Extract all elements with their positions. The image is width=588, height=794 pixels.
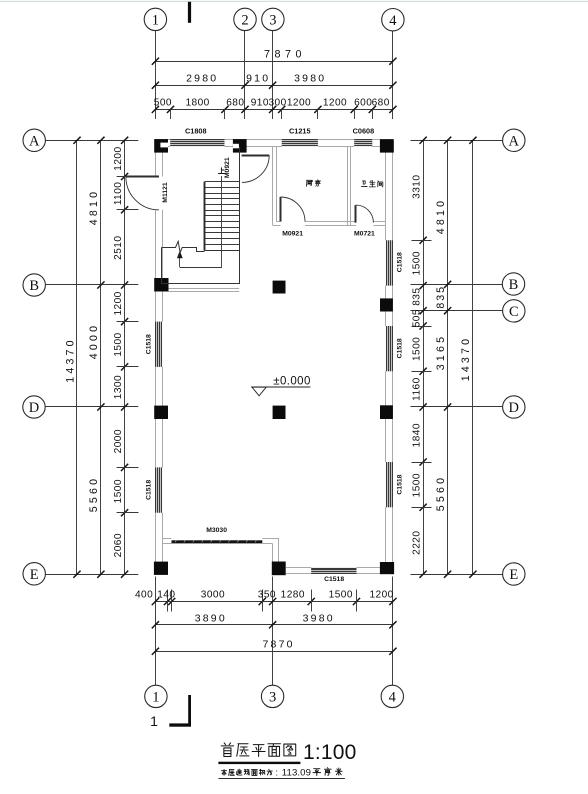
svg-text:C1518: C1518 xyxy=(396,474,403,494)
door M0721 (bathroom) leaf xyxy=(355,205,357,223)
wall: north exterior (grid A), outer face xyxy=(155,139,170,141)
wall: west exterior, outer face xyxy=(155,139,157,176)
svg-text:910: 910 xyxy=(251,98,269,109)
dimension chain 500/1800/680/910/300/1200/1200/600/680 (top) xyxy=(155,109,393,111)
grid bubble A (right) xyxy=(503,129,525,151)
stair break line with zigzag xyxy=(162,241,205,252)
level mark ±0.000 xyxy=(251,375,311,395)
grid line B (right) xyxy=(411,284,503,286)
footer underline xyxy=(218,777,345,780)
title 首层平面图 xyxy=(221,743,233,757)
svg-text:910: 910 xyxy=(246,72,270,84)
column grid3-B xyxy=(273,281,286,294)
grid bubble 1 (top) xyxy=(144,8,166,30)
grid bubble E (right) xyxy=(503,563,525,585)
stair treads xyxy=(205,182,239,245)
column grid4-E xyxy=(380,562,394,574)
wall: south exterior (grid E), inner face xyxy=(286,567,311,569)
svg-text:600: 600 xyxy=(354,98,372,109)
wall: north exterior (grid A), inner face xyxy=(162,146,170,148)
grid bubble 4 (bottom) xyxy=(381,685,403,707)
svg-text:680: 680 xyxy=(372,98,390,109)
svg-text:E: E xyxy=(509,567,518,583)
dimension line 2980/910/3980 (top) xyxy=(155,85,393,87)
grid line 4 (bottom) xyxy=(392,577,394,686)
svg-text:1: 1 xyxy=(152,13,159,29)
wall: east exterior, outer face xyxy=(392,139,394,240)
grid bubble 1 (bottom) xyxy=(145,685,167,707)
stair walking-line arrow xyxy=(177,251,183,259)
svg-text:4810: 4810 xyxy=(435,198,447,234)
stair stringer (thick) xyxy=(204,182,206,251)
svg-text:2980: 2980 xyxy=(186,72,218,84)
grid bubble 3 (top) xyxy=(262,8,284,30)
extension stubs (top chain) xyxy=(170,109,172,119)
svg-text:3000: 3000 xyxy=(201,590,225,601)
extension stubs (bottom chain) xyxy=(167,590,169,612)
section mark 1 (top) xyxy=(188,2,191,23)
grid line A (right) xyxy=(411,140,503,142)
svg-text:350: 350 xyxy=(258,590,276,601)
svg-text:1500: 1500 xyxy=(113,332,124,356)
column grid1-A notch xyxy=(160,143,168,148)
svg-text:400: 400 xyxy=(135,590,153,601)
grid line 1 (bottom) xyxy=(155,577,157,686)
svg-text:4810: 4810 xyxy=(88,189,100,225)
window C1518 (west wall, lower) xyxy=(155,467,162,512)
svg-text:1160: 1160 xyxy=(411,377,422,401)
svg-text:C1518: C1518 xyxy=(145,480,152,500)
column grid2-A notch xyxy=(233,144,239,149)
grid line 4 (top) xyxy=(392,31,394,119)
svg-text:E: E xyxy=(30,567,39,583)
window C1518 (east wall, middle) xyxy=(386,326,393,371)
page top edge line xyxy=(0,0,588,3)
grid bubble A (left) xyxy=(23,129,45,151)
svg-text:500: 500 xyxy=(154,98,172,109)
svg-text:1: 1 xyxy=(150,713,158,729)
grid bubble 3 (bottom) xyxy=(261,685,283,707)
wall: recess return (above grid3-E column) xyxy=(272,544,274,562)
grid bubble E (left) xyxy=(23,563,45,585)
grid bubble 2 (top) xyxy=(234,8,256,30)
svg-text:1500: 1500 xyxy=(411,251,422,275)
stair lower flight bottom edge xyxy=(204,250,239,252)
svg-text:D: D xyxy=(509,400,519,416)
wall: stair hall south (grid B) xyxy=(169,288,240,290)
svg-text:1200: 1200 xyxy=(287,98,311,109)
extension stubs (left chain) xyxy=(117,176,139,178)
dimension line 4810/835/3165/5560 (right) xyxy=(447,140,449,574)
door M3030 (south sliding door band) xyxy=(172,540,263,543)
svg-text:1100: 1100 xyxy=(113,182,124,206)
grid line D (left) xyxy=(46,406,139,408)
grid line C (right) xyxy=(411,310,503,312)
grid bubble C (right) xyxy=(503,300,525,322)
stair up label 上 (rotated) xyxy=(219,168,225,174)
svg-text:1200: 1200 xyxy=(113,146,124,170)
grid bubble 4 (top) xyxy=(382,9,404,31)
grid line A (left) xyxy=(46,140,139,142)
column grid3-E xyxy=(272,562,286,576)
svg-text:C1808: C1808 xyxy=(185,127,207,136)
svg-text:M0921: M0921 xyxy=(224,157,231,178)
dimension line 14370 (right) xyxy=(472,140,474,574)
stair walking line xyxy=(180,267,222,269)
svg-text:C1518: C1518 xyxy=(145,334,152,354)
svg-text:M0921: M0921 xyxy=(282,231,303,238)
grid line 1 (top) xyxy=(155,31,157,119)
wall: kitchen/bathroom divider xyxy=(347,146,349,225)
svg-text:4: 4 xyxy=(389,13,397,29)
svg-text:C1518: C1518 xyxy=(324,576,344,583)
grid line B (left) xyxy=(46,284,139,286)
room label 卫生间 (bathroom) xyxy=(361,181,367,186)
svg-text:B: B xyxy=(509,277,519,293)
svg-text:2510: 2510 xyxy=(113,236,124,260)
svg-text:5560: 5560 xyxy=(88,476,100,512)
window C1518 (east wall, lower) xyxy=(386,462,393,507)
door M1121 swing arc xyxy=(126,177,159,210)
grid bubble D (left) xyxy=(23,396,45,418)
grid line E (left) xyxy=(46,574,139,576)
dimension line 4810/4000/5560 (left) xyxy=(100,140,102,574)
column grid4-D xyxy=(380,405,393,419)
dimension chain 400/140/3000/350/1280/1500/1200 (bottom) xyxy=(155,601,393,603)
svg-text:1: 1 xyxy=(152,690,159,706)
svg-text:505: 505 xyxy=(411,309,422,327)
dimension line 7870 (top) xyxy=(155,61,393,63)
window C0608 (north wall) xyxy=(354,139,372,146)
column grid3-D xyxy=(273,406,286,419)
svg-text:2060: 2060 xyxy=(113,533,124,557)
svg-text:3980: 3980 xyxy=(303,612,335,624)
extension stubs (right chain) xyxy=(412,240,432,242)
svg-text:B: B xyxy=(29,278,39,294)
dimension chain 3310/1500/835/505/1500/1160/1840/1500/2220 (right) xyxy=(423,140,425,574)
svg-text:±0.000: ±0.000 xyxy=(273,375,311,387)
column grid1-D xyxy=(154,406,168,419)
svg-text:M0721: M0721 xyxy=(354,231,375,238)
svg-text:1280: 1280 xyxy=(281,590,305,601)
svg-text:D: D xyxy=(29,400,39,416)
svg-text:1500: 1500 xyxy=(411,473,422,497)
svg-text:C1518: C1518 xyxy=(396,252,403,272)
door M0921 (kitchen) leaf xyxy=(280,197,282,222)
svg-text:4: 4 xyxy=(389,690,397,706)
svg-text:3: 3 xyxy=(269,690,276,706)
column grid1-B xyxy=(154,278,168,292)
svg-text:1500: 1500 xyxy=(411,337,422,361)
svg-text:1840: 1840 xyxy=(411,423,422,447)
grid bubble B (left) xyxy=(23,274,45,296)
svg-text:4000: 4000 xyxy=(88,323,100,359)
wall: south recess wall with M3030 xyxy=(162,538,171,540)
grid line 3 (bottom) xyxy=(272,577,274,686)
grid line D (right) xyxy=(411,406,503,408)
svg-text:1500: 1500 xyxy=(329,590,353,601)
column grid2-A xyxy=(233,139,247,153)
window C1215 (north wall) xyxy=(282,139,318,146)
wall: kitchen west partition (grid 3) xyxy=(272,147,274,225)
svg-text:2220: 2220 xyxy=(411,531,422,555)
dimension chain 1200/1100/2510/1200/1500/1300/2000/1500/2060 (left) xyxy=(124,140,126,574)
svg-text:140: 140 xyxy=(157,590,175,601)
svg-text:14370: 14370 xyxy=(64,337,76,382)
grid bubble D (right) xyxy=(503,396,525,418)
window C1518 (east wall, upper) xyxy=(386,240,393,285)
svg-text:C1518: C1518 xyxy=(396,338,403,358)
svg-text:835: 835 xyxy=(411,288,422,306)
footer 本层建筑面积为：113.09平方米 xyxy=(221,769,226,775)
window C1518 (west wall, upper) xyxy=(155,322,162,367)
svg-text:835: 835 xyxy=(435,285,447,309)
svg-text:3165: 3165 xyxy=(435,334,447,370)
svg-text:3: 3 xyxy=(269,13,276,29)
column grid4-A xyxy=(380,139,394,152)
dimension line 7870 (bottom) xyxy=(155,651,393,653)
svg-text:680: 680 xyxy=(226,98,244,109)
grid bubble B (right) xyxy=(502,273,524,295)
stair center line xyxy=(221,176,223,267)
svg-text:C: C xyxy=(509,304,519,320)
svg-text:2: 2 xyxy=(241,13,248,29)
svg-text:113.09: 113.09 xyxy=(282,768,311,779)
svg-text:1500: 1500 xyxy=(113,479,124,503)
window C1808 (north wall) xyxy=(170,139,224,146)
wall: west exterior, inner face xyxy=(162,146,164,176)
svg-text:M3030: M3030 xyxy=(206,527,227,534)
door M0721 swing arc xyxy=(356,205,374,223)
svg-text:2000: 2000 xyxy=(113,429,124,453)
title underline xyxy=(218,762,300,764)
wall: kitchen/bathroom south partition xyxy=(276,221,280,223)
window C1518 (south wall) xyxy=(311,568,356,574)
grid line 2 (top) xyxy=(244,31,246,119)
grid line E (right) xyxy=(411,574,503,576)
section mark 1 (bottom) xyxy=(150,695,191,729)
svg-text:1300: 1300 xyxy=(113,375,124,399)
column grid1-A xyxy=(154,139,168,153)
svg-text:7870: 7870 xyxy=(264,49,306,61)
grid line 3 (top) xyxy=(272,31,274,119)
door M0921 (stair hall) swing arc xyxy=(242,155,269,182)
svg-text:1200: 1200 xyxy=(323,98,347,109)
dimension line 3890/3980 (bottom) xyxy=(155,624,393,626)
svg-text:1:100: 1:100 xyxy=(303,741,357,764)
svg-text:C0608: C0608 xyxy=(353,126,375,135)
svg-text:7870: 7870 xyxy=(263,639,295,651)
room label 厨房 (kitchen) xyxy=(306,180,312,186)
stair enclosure outline xyxy=(162,147,240,284)
svg-text:5560: 5560 xyxy=(435,475,447,511)
svg-text:1200: 1200 xyxy=(369,590,393,601)
column grid4-C xyxy=(380,298,393,311)
svg-text:3310: 3310 xyxy=(411,175,422,199)
column grid1-E xyxy=(154,562,168,575)
svg-text:3980: 3980 xyxy=(294,72,326,84)
wall: east exterior, inner face xyxy=(385,146,387,240)
svg-text:1200: 1200 xyxy=(113,291,124,315)
door M0921 (kitchen) swing arc xyxy=(281,197,306,222)
door M0921 (stair hall, north) leaf xyxy=(242,155,270,157)
svg-text:C1215: C1215 xyxy=(289,126,311,135)
svg-text:A: A xyxy=(29,134,40,150)
svg-text:300: 300 xyxy=(268,98,286,109)
wall: south exterior (grid E, grid3-grid4), outer face xyxy=(286,573,311,575)
svg-text:A: A xyxy=(509,134,520,150)
door M1121 (west entry) leaf xyxy=(126,176,159,178)
svg-text:14370: 14370 xyxy=(460,336,472,381)
svg-text::: : xyxy=(276,767,278,777)
svg-text:1800: 1800 xyxy=(185,98,209,109)
svg-text:3890: 3890 xyxy=(195,612,227,624)
svg-text:M1121: M1121 xyxy=(162,182,169,203)
dimension line 14370 (left) xyxy=(76,140,78,574)
